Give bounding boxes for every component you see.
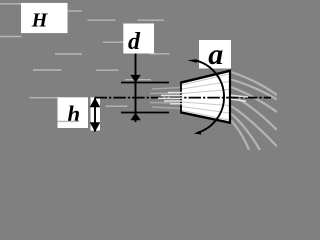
bright flow streak left 3 bbox=[158, 97, 183, 99]
bright jet core streak 1 bbox=[231, 95, 248, 97]
d arrowhead up bbox=[130, 113, 140, 121]
svg-text:H: H bbox=[31, 9, 49, 31]
ripple dash below H box bbox=[0, 36, 22, 38]
nozzle inner flow line 2 bbox=[182, 82, 229, 90]
ripple dash y70 left bbox=[33, 69, 62, 71]
label box a bbox=[199, 40, 231, 69]
ripple dash y70 right bbox=[96, 69, 119, 71]
ripple dash y21 right bbox=[138, 19, 165, 21]
ripple dash inside h box bbox=[58, 120, 79, 122]
ripple dash right of d box bbox=[150, 53, 170, 55]
label box H bbox=[21, 3, 68, 33]
d dimension line bbox=[135, 54, 137, 123]
bright jet core streak 2 bbox=[231, 99, 246, 101]
svg-text:h: h bbox=[67, 102, 80, 127]
nozzle inner flow line 4 bbox=[182, 102, 229, 106]
flow line left of nozzle 4 bbox=[152, 107, 181, 109]
ripple dash y55 bbox=[55, 53, 82, 55]
nozzle body bbox=[181, 71, 230, 124]
ripple dash right of H box bbox=[68, 10, 83, 12]
jet curve 7 bbox=[231, 121, 249, 151]
h arrowhead up bbox=[90, 98, 101, 108]
jet curve 4 bbox=[231, 95, 277, 130]
ripple dash above d extension bbox=[125, 79, 151, 81]
bright flow streak left 4 bbox=[164, 100, 183, 102]
bright flow streak left 2 bbox=[161, 95, 183, 97]
ripple dash y21 left bbox=[88, 19, 116, 21]
angle arc for a bbox=[196, 61, 224, 133]
nozzle inner flow line 5 bbox=[182, 107, 229, 114]
svg-text:a: a bbox=[208, 38, 223, 71]
nozzle top edge bbox=[181, 71, 231, 83]
ripple dash left of d box bbox=[103, 41, 124, 43]
d extension line top bbox=[121, 82, 169, 84]
d extension line bottom bbox=[121, 112, 169, 114]
nozzle inner flow line 3 bbox=[182, 90, 229, 94]
nozzle inner flow line 1 bbox=[182, 74, 229, 85]
h dimension line bbox=[94, 98, 96, 132]
nozzle right edge (mouth) bbox=[229, 70, 231, 124]
label box h bbox=[58, 97, 89, 128]
jet curve 2 bbox=[231, 80, 277, 100]
nozzle inner flow line 6 bbox=[182, 111, 229, 121]
label box d bbox=[123, 24, 154, 54]
h arrowhead down bbox=[90, 122, 101, 132]
bright flow streak left 5 bbox=[170, 103, 183, 105]
svg-text:d: d bbox=[128, 29, 141, 55]
jet curve 3 bbox=[231, 87, 277, 112]
nozzle bottom edge bbox=[181, 112, 231, 123]
d arrowhead down bbox=[130, 75, 140, 83]
flow line left of nozzle 2 bbox=[150, 92, 181, 95]
jet curve 1 bbox=[231, 72, 277, 95]
ripple dash left of h box bbox=[30, 97, 59, 99]
white strip behind h arrow bbox=[91, 97, 101, 130]
arc bottom tail arrowhead bbox=[194, 131, 202, 135]
ripple dash top-left bbox=[0, 3, 21, 5]
nozzle left edge (throat) bbox=[180, 82, 182, 114]
bright flow streak left 1 bbox=[168, 92, 183, 94]
flow line left of nozzle 3 bbox=[150, 102, 181, 105]
flow line left of nozzle 1 bbox=[152, 88, 181, 90]
jet curve 5 bbox=[231, 106, 277, 147]
axis dash-dot line bbox=[95, 97, 272, 99]
ripple dash below axis mid bbox=[106, 105, 128, 107]
jet curve 6 bbox=[231, 114, 260, 151]
arc top tail arrowhead bbox=[187, 59, 196, 63]
